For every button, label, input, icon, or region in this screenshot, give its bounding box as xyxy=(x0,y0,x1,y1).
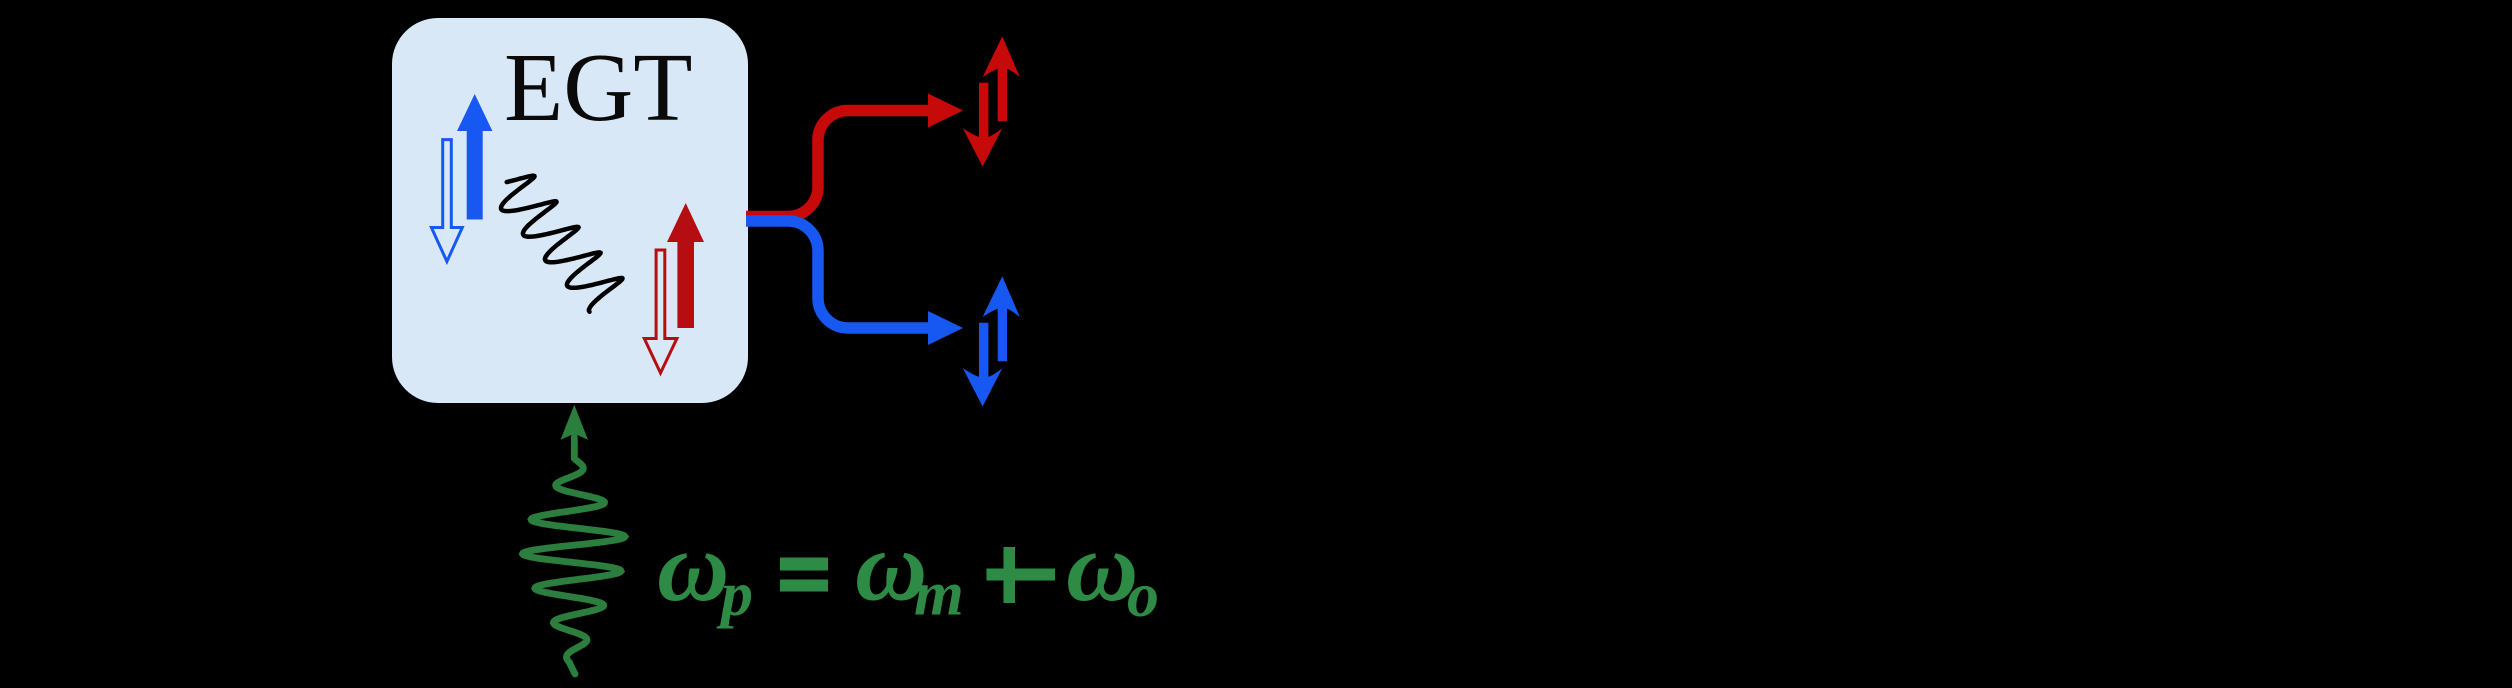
red spin pair: filled up arrow xyxy=(667,203,704,328)
equation: equals sign xyxy=(780,558,828,571)
green pump arrowhead xyxy=(561,405,589,440)
blue double arrow: up xyxy=(983,276,1020,361)
EGT box xyxy=(392,18,748,403)
black photon squiggle xyxy=(501,176,622,312)
blue curve arrowhead xyxy=(928,311,963,345)
svg-text:EGT: EGT xyxy=(504,34,693,141)
equation: plus sign xyxy=(987,569,1056,581)
blue output curve xyxy=(746,221,929,328)
blue double arrow: down xyxy=(963,323,1003,407)
red double arrow: up xyxy=(983,36,1020,121)
red spin pair: outlined down arrow xyxy=(644,250,677,373)
svg-text:ω: ω xyxy=(657,511,729,622)
svg-text:o: o xyxy=(1127,559,1159,630)
svg-text:p: p xyxy=(716,558,753,629)
blue spin pair: outlined down arrow xyxy=(431,140,462,262)
green pump wave packet xyxy=(523,437,625,674)
red curve arrowhead xyxy=(928,94,963,128)
blue spin pair: filled up arrow xyxy=(457,94,492,220)
red output curve xyxy=(746,111,929,217)
svg-text:m: m xyxy=(914,558,964,629)
red double arrow: down xyxy=(963,83,1003,167)
